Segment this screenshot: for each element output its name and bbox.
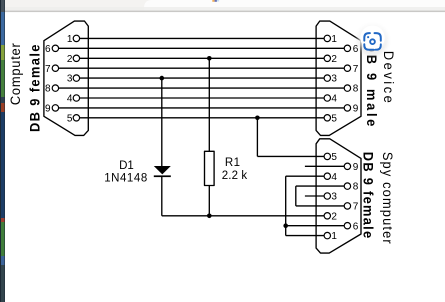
wire R1 bottom lead xyxy=(208,186,210,216)
wire J3.6 horizontal xyxy=(286,225,345,227)
pin J1.6 xyxy=(52,45,58,51)
svg-text:D1: D1 xyxy=(119,160,134,172)
svg-text:DB 9 female: DB 9 female xyxy=(360,152,376,240)
pin J3.9 xyxy=(344,163,350,169)
svg-text:7: 7 xyxy=(353,64,359,75)
wire resistor branch vertical from row2 xyxy=(208,58,210,151)
tab bar lower gradient xyxy=(0,7,445,11)
svg-text:1: 1 xyxy=(331,231,337,242)
wire ground tap horizontal to J3.5 xyxy=(257,155,324,157)
wire J3.1 horizontal xyxy=(286,235,324,237)
wire ground tap vertical from row5 xyxy=(256,118,258,157)
svg-text:2: 2 xyxy=(67,54,73,65)
wire loop vertical J3.4-J3.6-J3.1 xyxy=(285,176,287,235)
svg-text:5: 5 xyxy=(331,152,337,163)
wire row6 J1.6 to J2.6 xyxy=(59,47,345,49)
svg-text:2: 2 xyxy=(331,211,337,222)
lens overlay icon camera glyph xyxy=(364,33,381,50)
svg-text:2: 2 xyxy=(331,54,337,65)
pin J3.6 xyxy=(344,223,350,229)
svg-text:6: 6 xyxy=(353,44,359,55)
pin J3.2 xyxy=(324,213,330,219)
desktop wallpaper sliver left edge xyxy=(0,0,5,302)
svg-text:6: 6 xyxy=(45,44,51,55)
browser top bar band xyxy=(0,0,445,11)
wire J3.8 horizontal xyxy=(296,185,344,187)
pin J1.2 xyxy=(73,55,79,61)
svg-text:8: 8 xyxy=(353,84,359,95)
pin J1.4 xyxy=(73,95,79,101)
svg-text:1: 1 xyxy=(67,34,73,45)
pin J3.7 xyxy=(344,203,350,209)
pin J3.3 xyxy=(324,193,330,199)
svg-text:Computer: Computer xyxy=(8,42,24,105)
svg-text:3: 3 xyxy=(331,74,337,85)
svg-text:3: 3 xyxy=(331,192,337,203)
wire row9 J1.9 to J2.9 xyxy=(59,107,345,109)
pin J2.4 xyxy=(324,95,330,101)
svg-text:9: 9 xyxy=(353,104,359,115)
wire bottom net to J3.2 xyxy=(162,215,324,217)
svg-text:2.2 k: 2.2 k xyxy=(222,170,248,182)
wire row7 J1.7 to J2.7 xyxy=(59,67,345,69)
wire row4 J1.4 to J2.4 xyxy=(80,97,325,99)
pin J1.3 xyxy=(73,75,79,81)
svg-text:7: 7 xyxy=(45,64,51,75)
svg-text:3: 3 xyxy=(67,74,73,85)
svg-text:Spy computer: Spy computer xyxy=(380,152,396,245)
junction row3/D1 xyxy=(160,76,165,81)
junction row5/ground tap xyxy=(255,116,260,121)
svg-text:5: 5 xyxy=(67,113,73,124)
svg-text:7: 7 xyxy=(353,202,359,213)
browser active tab xyxy=(144,0,445,11)
pin J2.9 xyxy=(344,105,350,111)
pin J1.1 xyxy=(73,35,79,41)
pin J1.7 xyxy=(52,65,58,71)
svg-text:8: 8 xyxy=(45,84,51,95)
svg-text:R1: R1 xyxy=(225,157,241,169)
wire row2 J1.2 to J2.2 xyxy=(80,57,325,59)
connector J3 body (Spy computer DB 9 female) xyxy=(316,139,361,253)
svg-text:Device: Device xyxy=(381,51,397,106)
svg-text:4: 4 xyxy=(331,94,337,105)
diode D1 symbol xyxy=(154,166,171,177)
pin J2.8 xyxy=(344,85,350,91)
pin J2.3 xyxy=(324,75,330,81)
svg-text:9: 9 xyxy=(353,162,359,173)
wire diode branch vertical from row3 xyxy=(161,78,163,166)
wire J3.3 stub xyxy=(305,195,324,197)
favicon remnant xyxy=(212,0,214,2)
pin J2.6 xyxy=(344,45,350,51)
svg-text:1: 1 xyxy=(331,34,337,45)
connector J1 body (Computer DB 9 female) xyxy=(44,21,88,135)
pin J3.5 xyxy=(324,153,330,159)
resistor R1 body xyxy=(205,151,215,185)
pin J2.1 xyxy=(324,35,330,41)
junction bottom net/R1 xyxy=(207,214,212,219)
pin J1.8 xyxy=(52,85,58,91)
wire loop vertical J3.8-J3.7 xyxy=(295,186,297,206)
svg-text:6: 6 xyxy=(353,221,359,232)
pin J1.5 xyxy=(73,115,79,121)
pin J2.2 xyxy=(324,55,330,61)
lens overlay icon white disc xyxy=(358,23,388,55)
wire J3.7 horizontal xyxy=(296,205,344,207)
svg-text:DB 9 male: DB 9 male xyxy=(364,43,380,129)
wire row1 J1.1 to J2.1 xyxy=(80,37,325,39)
svg-text:1N4148: 1N4148 xyxy=(104,173,148,185)
pin J3.1 xyxy=(324,232,330,238)
svg-text:5: 5 xyxy=(331,113,337,124)
wire row5 J1.5 to J2.5 (signal ground) xyxy=(80,117,325,119)
wire J3.4 horizontal xyxy=(286,175,324,177)
wire row3 J1.3 to J2.3 xyxy=(80,77,325,79)
pin J2.5 xyxy=(324,115,330,121)
junction J3.4-J3.6 loop xyxy=(283,223,288,228)
pin J3.4 xyxy=(324,173,330,179)
junction row2/R1 xyxy=(207,56,212,61)
pin circles J1 xyxy=(52,35,350,239)
wire D1 cathode to bottom net xyxy=(161,177,163,216)
tab bar bottom border line xyxy=(0,11,445,13)
wire J3.9 stub xyxy=(305,165,344,167)
svg-text:DB 9 female: DB 9 female xyxy=(27,43,43,132)
pin J3.8 xyxy=(344,183,350,189)
pin J1.9 xyxy=(52,105,58,111)
svg-text:4: 4 xyxy=(331,172,337,183)
svg-text:9: 9 xyxy=(45,104,51,115)
pin J2.7 xyxy=(344,65,350,71)
svg-text:8: 8 xyxy=(353,182,359,193)
wire row8 J1.8 to J2.8 xyxy=(59,87,345,89)
connector J2 body (Device DB 9 male) xyxy=(316,21,361,135)
svg-text:4: 4 xyxy=(67,94,73,105)
